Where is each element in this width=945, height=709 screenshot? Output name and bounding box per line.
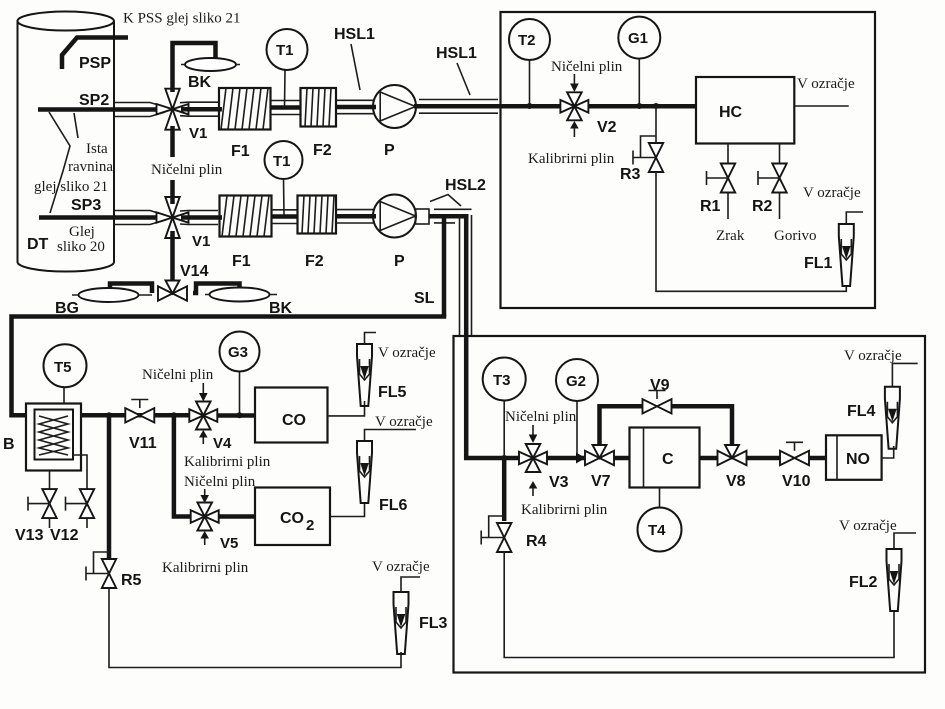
wire V3 to V7: [547, 456, 585, 461]
svg-text:ravnina: ravnina: [68, 159, 113, 175]
gauge G2: [556, 359, 598, 456]
wire SP2 core: [38, 107, 158, 112]
svg-text:Ničelni plin: Ničelni plin: [505, 409, 577, 425]
svg-text:P: P: [394, 253, 405, 270]
wire BK step: [193, 284, 240, 294]
svg-text:V ozračje: V ozračje: [797, 76, 855, 92]
sample line into box: [466, 336, 519, 458]
wire branch to R4: [502, 458, 507, 521]
svg-text:G3: G3: [228, 344, 248, 361]
svg-text:G2: G2: [566, 373, 586, 390]
svg-text:T1: T1: [276, 42, 294, 59]
rotameter FL1: [839, 224, 854, 286]
wire R4 to FL2: [504, 552, 894, 658]
coil inside B: [39, 416, 68, 455]
svg-text:V1: V1: [192, 233, 210, 250]
nicelni stub above label: [170, 126, 175, 157]
svg-text:F1: F1: [231, 143, 250, 160]
pipe F2-P row1: [336, 105, 376, 110]
svg-text:B: B: [3, 436, 15, 453]
svg-text:V8: V8: [726, 473, 746, 490]
bag BK row1: [181, 58, 240, 71]
svg-text:V ozračje: V ozračje: [839, 518, 897, 534]
svg-text:FL6: FL6: [379, 497, 408, 514]
gauge G3: [220, 332, 260, 415]
svg-text:V11: V11: [129, 435, 157, 452]
node R3 branch: [653, 103, 659, 109]
svg-text:R4: R4: [526, 533, 547, 550]
vent FL3: [401, 577, 420, 592]
valve V12 drain: [66, 455, 95, 528]
wire down to R5: [107, 415, 112, 559]
rotameter FL5: [357, 344, 372, 406]
svg-text:Kalibrirni plin: Kalibrirni plin: [521, 502, 608, 518]
wire NO to FL4: [882, 446, 894, 458]
svg-text:V5: V5: [220, 535, 238, 552]
pipe walls SP2: [115, 103, 165, 117]
bag BG: [72, 288, 152, 302]
node R5 branch: [106, 412, 112, 418]
svg-text:V13: V13: [15, 527, 44, 544]
wire main to HC: [560, 104, 696, 109]
pipe P to elbow row2: [429, 214, 469, 219]
arrow down V4: [202, 383, 204, 395]
enclosure box bottom right: [454, 336, 926, 673]
vent FL1: [846, 212, 863, 224]
svg-text:BK: BK: [188, 74, 212, 91]
svg-text:Ista: Ista: [86, 141, 108, 157]
wire R3 branch down: [655, 106, 657, 143]
svg-text:HSL2: HSL2: [445, 177, 486, 194]
svg-text:FL3: FL3: [419, 615, 448, 632]
wire R5 to FL3: [109, 588, 401, 668]
svg-text:FL4: FL4: [847, 403, 876, 420]
wire main bus: [12, 314, 445, 415]
wire BG step: [110, 284, 152, 294]
valve V5: [191, 503, 219, 531]
pipe valve to F1 row2: [181, 215, 222, 220]
valve R5: [86, 552, 116, 588]
node G3: [237, 412, 243, 418]
svg-text:Ničelni plin: Ničelni plin: [184, 474, 256, 490]
enclosure box top right: [501, 12, 876, 308]
svg-text:V1: V1: [189, 125, 207, 142]
pump P row1: [373, 85, 416, 128]
filter F1 row2: [220, 196, 272, 237]
svg-text:V3: V3: [549, 474, 569, 491]
svg-text:PSP: PSP: [79, 55, 111, 72]
svg-text:V14: V14: [180, 263, 209, 280]
gauge G1: [618, 17, 660, 104]
bypass wire V7 to V9 to V8: [600, 406, 644, 446]
valve V10: [780, 442, 809, 465]
wire CO to FL5: [328, 401, 365, 416]
bag BK row2: [205, 288, 277, 302]
B inner box: [35, 410, 74, 460]
wire V8 to V10: [747, 456, 781, 461]
svg-text:Kalibrirni plin: Kalibrirni plin: [528, 151, 615, 167]
valve V4: [189, 402, 217, 430]
svg-text:V ozračje: V ozračje: [803, 185, 861, 201]
svg-text:C: C: [662, 451, 674, 468]
svg-text:R2: R2: [752, 198, 773, 215]
leader lines: [49, 112, 70, 213]
arrow down V5: [204, 489, 206, 497]
thermometer T2: [509, 19, 550, 104]
svg-text:V4: V4: [213, 435, 232, 452]
wire V7 to C: [614, 456, 630, 461]
svg-text:SL: SL: [414, 290, 435, 307]
valve V11: [125, 400, 154, 423]
svg-text:R1: R1: [700, 198, 721, 215]
node V5 branch: [171, 412, 177, 418]
valve V7: [585, 445, 614, 465]
stub above V1 row2: [170, 180, 175, 204]
svg-text:HSL1: HSL1: [334, 26, 375, 43]
thermometer T5: [44, 344, 87, 404]
svg-text:CO: CO: [280, 510, 304, 527]
svg-text:FL1: FL1: [804, 255, 833, 272]
valve V9: [643, 391, 672, 414]
conditioner B outer box: [26, 404, 81, 471]
arrow up V2: [573, 128, 575, 137]
svg-text:V2: V2: [597, 119, 617, 136]
pipe F1-F2 row2: [272, 214, 298, 219]
vent HC: [794, 105, 848, 107]
svg-text:V7: V7: [591, 473, 611, 490]
wire SP3 core: [39, 215, 158, 220]
wire B to V4: [81, 413, 189, 418]
valve R1: [707, 144, 736, 220]
svg-text:Kalibrirni plin: Kalibrirni plin: [184, 454, 271, 470]
wire V4 to CO: [217, 413, 255, 418]
svg-text:T3: T3: [493, 372, 511, 389]
vent FL2: [894, 533, 916, 549]
wire V10 to NO: [809, 456, 826, 461]
svg-text:sliko 20: sliko 20: [57, 239, 105, 255]
arrow down V3: [532, 425, 534, 436]
tank DT body: [17, 12, 114, 272]
filter F2 row2: [298, 196, 337, 234]
valve R4: [481, 516, 511, 552]
svg-text:R3: R3: [620, 166, 641, 183]
svg-text:V10: V10: [782, 473, 811, 490]
node T2: [527, 103, 533, 109]
arrow down V2: [573, 74, 575, 85]
svg-text:DT: DT: [27, 236, 49, 253]
svg-text:Ničelni plin: Ničelni plin: [551, 59, 623, 75]
svg-text:Zrak: Zrak: [716, 228, 745, 244]
sample line down: [464, 214, 469, 336]
svg-text:P: P: [384, 142, 395, 159]
wire R3 to FL1: [656, 172, 846, 291]
node G1: [636, 103, 642, 109]
wire branch down to V5: [174, 415, 190, 516]
rotameter FL3: [394, 592, 409, 654]
pump P row2: [373, 195, 416, 238]
analyzer NO box: [826, 435, 882, 480]
arrow up V3: [532, 488, 534, 496]
PSP probe line: [62, 38, 128, 70]
thermometer T3: [483, 358, 526, 457]
svg-text:V ozračje: V ozračje: [378, 345, 436, 361]
BK loop row1: [173, 43, 216, 92]
thermometer T1 row1: [267, 29, 308, 107]
svg-text:glej sliko 21: glej sliko 21: [34, 179, 108, 195]
svg-text:R5: R5: [121, 572, 142, 589]
svg-text:HC: HC: [719, 104, 743, 121]
svg-text:V ozračje: V ozračje: [372, 559, 430, 575]
svg-text:V ozračje: V ozračje: [844, 348, 902, 364]
svg-text:NO: NO: [846, 451, 870, 468]
rotameter FL2: [887, 549, 902, 611]
node T3/R4: [501, 455, 507, 461]
svg-text:T4: T4: [648, 522, 666, 539]
pipe F2-P row2: [336, 214, 376, 219]
thermometer T4: [638, 488, 682, 552]
svg-text:F2: F2: [313, 142, 332, 159]
svg-text:V ozračje: V ozračje: [375, 414, 433, 430]
valve V14: [158, 281, 187, 301]
valve V13 drain: [28, 471, 57, 529]
valve R2: [758, 144, 787, 220]
valve R3: [633, 136, 663, 172]
pipe valve to F1 row1: [181, 107, 222, 112]
svg-text:F1: F1: [232, 253, 251, 270]
vent FL4: [892, 363, 917, 386]
svg-text:V9: V9: [650, 377, 670, 394]
svg-text:F2: F2: [305, 253, 324, 270]
valve V1 row2: [157, 197, 189, 238]
valve V1 row1: [157, 89, 189, 130]
pipe F1-F2 row1: [271, 105, 301, 110]
svg-text:CO: CO: [282, 412, 306, 429]
analyzer CO box: [255, 388, 328, 443]
svg-text:K PSS glej sliko 21: K PSS glej sliko 21: [123, 11, 241, 27]
svg-text:FL2: FL2: [849, 574, 878, 591]
valve V2: [560, 92, 588, 120]
svg-text:Kalibrirni plin: Kalibrirni plin: [162, 560, 249, 576]
rotameter FL6: [357, 441, 372, 503]
arrow up V4: [202, 437, 204, 444]
svg-text:FL5: FL5: [378, 384, 407, 401]
svg-text:Glej: Glej: [69, 224, 95, 240]
svg-text:T5: T5: [54, 359, 72, 376]
analyzer CO2 box: [255, 488, 330, 546]
svg-text:T1: T1: [273, 153, 291, 170]
rotameter FL4: [885, 387, 900, 449]
svg-text:G1: G1: [628, 30, 648, 47]
wire V5 to CO2: [219, 514, 255, 519]
filter F2 row1: [301, 88, 337, 127]
svg-text:T2: T2: [518, 32, 536, 49]
vent FL6: [365, 430, 417, 442]
elbow down walls: [434, 209, 472, 336]
arrow up V5: [204, 538, 206, 545]
pipe P to box row1 (HSL1): [414, 104, 560, 109]
svg-text:HSL1: HSL1: [436, 45, 477, 62]
svg-text:2: 2: [306, 517, 314, 534]
wire C to V8: [700, 456, 719, 461]
pipe walls SP3: [115, 211, 165, 225]
svg-text:SP2: SP2: [79, 92, 109, 109]
analyzer HC box: [696, 77, 794, 144]
svg-text:V12: V12: [50, 527, 79, 544]
analyzer C box: [630, 428, 700, 488]
svg-text:Ničelni plin: Ničelni plin: [142, 367, 214, 383]
wire CO2 to FL6: [330, 503, 365, 517]
vent FL5: [365, 333, 377, 345]
valve V8: [718, 445, 747, 465]
svg-text:Gorivo: Gorivo: [774, 228, 817, 244]
pump outlet box row2: [416, 209, 430, 224]
flow arrow before V7: [576, 453, 586, 464]
svg-text:Ničelni plin: Ničelni plin: [151, 162, 223, 178]
stub below V1 row2 to V14: [170, 231, 175, 282]
thermometer T1 row2: [265, 141, 303, 215]
filter F1 row1: [219, 88, 271, 130]
valve V3: [519, 444, 547, 472]
wire SL vertical: [442, 216, 447, 316]
svg-text:SP3: SP3: [71, 197, 101, 214]
